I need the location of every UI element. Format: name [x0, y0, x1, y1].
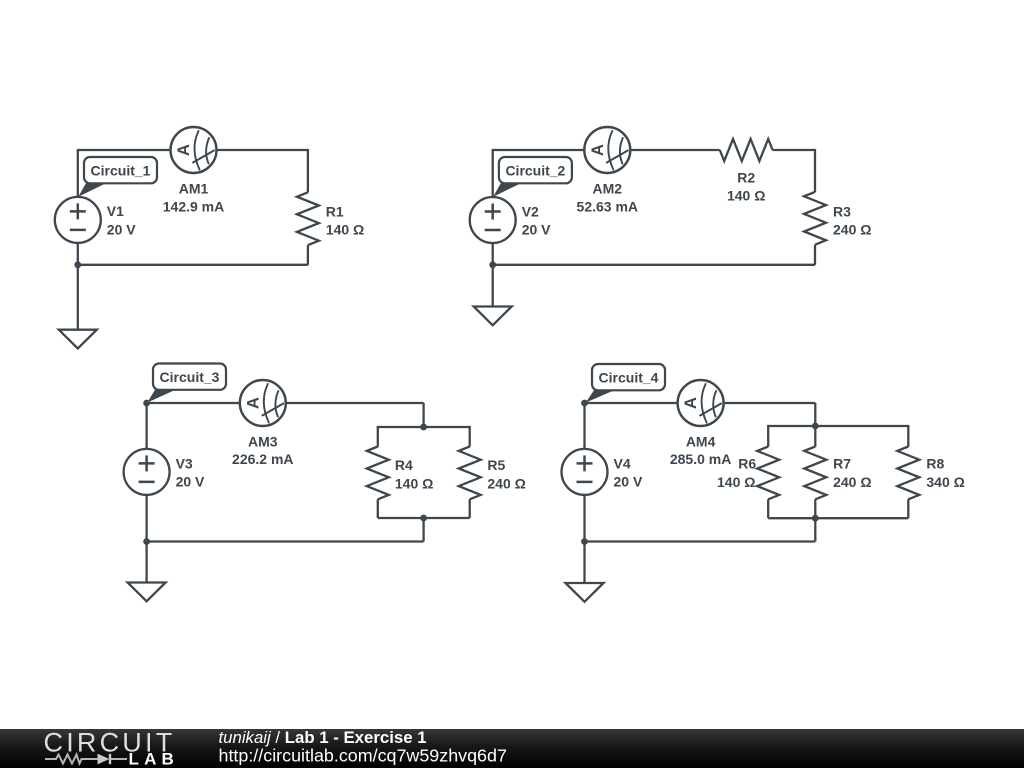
wire: circuit 4 top-left vertical to V4 top — [583, 403, 585, 449]
ground (circuit 4) — [566, 583, 604, 602]
junction dot: parallel top node (circuit 3) — [420, 424, 427, 431]
svg-text:http://circuitlab.com/cq7w59zh: http://circuitlab.com/cq7w59zhvq6d7 — [219, 745, 507, 765]
svg-text:A: A — [682, 397, 700, 409]
ground (circuit 3) — [128, 583, 166, 602]
resistor R2 — [720, 139, 773, 161]
svg-text:142.9 mA: 142.9 mA — [163, 198, 224, 214]
wire: circuit 3 top rail left segment — [147, 402, 241, 404]
wire: R6 upper lead — [767, 425, 769, 447]
resistor R5 — [459, 447, 481, 500]
logo diode symbol — [98, 754, 128, 765]
voltage source V4 — [562, 449, 608, 495]
wire: circuit 2 bottom rail — [493, 264, 815, 266]
label AM4 value — [670, 434, 731, 468]
label AM3 value — [232, 434, 293, 468]
resistor R4 — [367, 447, 389, 500]
label R7 value — [833, 455, 871, 490]
svg-text:R1: R1 — [326, 203, 344, 219]
label R1 value — [326, 203, 364, 237]
ammeter AM3 — [240, 380, 286, 426]
node flag Circuit_1 — [78, 157, 157, 197]
wire: circuit 3 top-left vertical to V3 top — [145, 403, 147, 449]
svg-text:140 Ω: 140 Ω — [326, 222, 364, 238]
svg-text:V1: V1 — [107, 203, 124, 219]
label R4 value — [395, 457, 433, 492]
svg-text:R3: R3 — [833, 203, 851, 219]
wire: R4 lower lead — [377, 499, 379, 518]
svg-text:140 Ω: 140 Ω — [717, 474, 755, 490]
ammeter AM1 — [171, 127, 217, 173]
svg-text:20 V: 20 V — [522, 221, 551, 237]
svg-text:R8: R8 — [926, 455, 944, 471]
wire: R8 upper lead — [907, 425, 909, 447]
svg-text:AM3: AM3 — [248, 434, 278, 450]
junction dot: circuit 2 bottom-left node — [489, 261, 496, 268]
svg-text:285.0 mA: 285.0 mA — [670, 451, 731, 467]
resistor R3 — [804, 192, 826, 245]
wire: circuit 2 right vertical lower lead — [814, 245, 816, 265]
svg-text:A: A — [589, 144, 607, 156]
label V3 value — [176, 455, 205, 489]
wire: circuit 1 right vertical upper lead — [307, 149, 309, 193]
ground (circuit 1) — [59, 330, 97, 349]
wire: circuit 2 ground stem — [492, 265, 494, 307]
wire: circuit 4 stem from parallel bottom to main bottom rail — [814, 518, 816, 541]
label V4 value — [614, 455, 643, 489]
svg-text:V3: V3 — [176, 455, 193, 471]
wire: R5 lower lead — [469, 499, 471, 518]
svg-text:V2: V2 — [522, 203, 539, 219]
svg-text:20 V: 20 V — [614, 474, 643, 490]
label R5 value — [487, 457, 525, 492]
node flag Circuit_2 — [493, 157, 572, 197]
svg-text:AM2: AM2 — [593, 181, 623, 197]
svg-text:226.2 mA: 226.2 mA — [232, 451, 293, 467]
wire: R8 lower lead — [907, 499, 909, 518]
label R6 value — [717, 455, 756, 490]
logo resistor squiggle — [45, 755, 98, 764]
junction dot: circuit 4 top-left node — [581, 400, 588, 407]
svg-text:Circuit_3: Circuit_3 — [160, 369, 220, 385]
junction dot: parallel top node (circuit 4) — [812, 423, 819, 430]
svg-text:V4: V4 — [614, 455, 631, 471]
wire: circuit 3 main bottom rail — [147, 540, 424, 542]
svg-text:AM4: AM4 — [686, 434, 716, 450]
wire: R4 upper lead — [377, 426, 379, 447]
label R2 value — [727, 169, 765, 203]
junction dot: parallel bottom node (circuit 3) — [420, 515, 427, 522]
wire: circuit 4 parallel top rail — [768, 425, 908, 427]
wire: circuit 2 top rail right segment — [773, 149, 815, 151]
svg-text:240 Ω: 240 Ω — [487, 476, 525, 492]
svg-text:340 Ω: 340 Ω — [926, 474, 964, 490]
svg-text:240 Ω: 240 Ω — [833, 474, 871, 490]
svg-text:Circuit_4: Circuit_4 — [599, 370, 659, 386]
wire: circuit 3 feed stem down to parallel top rail — [422, 403, 424, 427]
svg-text:52.63 mA: 52.63 mA — [577, 198, 638, 214]
wire: V4 bottom to bottom rail — [583, 494, 585, 541]
junction dot: circuit 3 bottom-left node — [143, 538, 150, 545]
wire: circuit 2 top-left vertical from corner to V2 top — [492, 150, 494, 198]
wire: V1 bottom to bottom rail — [77, 243, 79, 265]
wire: circuit 4 parallel bottom rail — [768, 517, 908, 519]
voltage source V3 — [124, 449, 170, 495]
junction dot: circuit 3 top-left node — [143, 400, 150, 407]
svg-text:AM1: AM1 — [179, 181, 209, 197]
label R8 value — [926, 455, 964, 490]
label R3 value — [833, 203, 871, 237]
svg-text:R4: R4 — [395, 457, 413, 473]
svg-text:LAB: LAB — [129, 750, 180, 768]
wire: circuit 3 stem from parallel bottom to main bottom rail — [422, 518, 424, 542]
resistor R7 — [804, 447, 826, 500]
wire: circuit 3 parallel bottom rail — [378, 517, 470, 519]
svg-text:R6: R6 — [738, 455, 756, 471]
wire: circuit 4 top rail left segment — [585, 402, 678, 404]
footer bar — [0, 729, 1024, 768]
wire: circuit 4 main bottom rail — [585, 540, 816, 542]
wire: R6 lower lead — [767, 499, 769, 518]
ammeter AM2 — [584, 127, 630, 173]
wire: circuit 3 parallel top rail — [378, 426, 470, 428]
wire: circuit 4 feed stem down to parallel top rail — [814, 403, 816, 426]
resistor R8 — [897, 447, 919, 500]
label V1 value — [107, 203, 136, 237]
resistor R1 — [297, 192, 319, 245]
svg-text:Circuit_2: Circuit_2 — [505, 163, 565, 179]
wire: circuit 4 top rail right segment — [723, 402, 815, 404]
svg-text:Circuit_1: Circuit_1 — [91, 163, 151, 179]
wire: circuit 2 top rail left segment — [492, 149, 585, 151]
svg-text:R2: R2 — [737, 169, 755, 185]
svg-text:20 V: 20 V — [176, 474, 205, 490]
wire: circuit 4 ground stem — [583, 542, 585, 584]
label AM2 value — [577, 181, 638, 215]
ground (circuit 2) — [474, 307, 512, 326]
wire: circuit 1 right vertical lower lead — [307, 245, 309, 265]
label V2 value — [522, 203, 551, 237]
voltage source V1 — [55, 197, 101, 243]
label AM1 value — [163, 181, 224, 215]
node flag Circuit_4 — [586, 364, 665, 403]
junction dot: parallel bottom node (circuit 4) — [812, 515, 819, 522]
svg-text:20 V: 20 V — [107, 221, 136, 237]
junction dot: circuit 1 bottom-left node — [74, 261, 81, 268]
svg-text:140 Ω: 140 Ω — [727, 187, 765, 203]
wire: circuit 1 top-left vertical from corner to V1 top — [77, 150, 79, 198]
svg-text:R5: R5 — [487, 457, 505, 473]
wire: circuit 3 ground stem — [145, 542, 147, 583]
wire: R7 lower lead — [814, 499, 816, 518]
node flag Circuit_3 — [147, 364, 226, 403]
svg-text:A: A — [244, 397, 262, 409]
wire: circuit 1 top rail left segment — [77, 149, 171, 151]
svg-text:140 Ω: 140 Ω — [395, 476, 433, 492]
resistor R6 — [757, 447, 779, 500]
wire: V3 bottom to bottom rail — [145, 494, 147, 541]
wire: circuit 1 ground stem — [77, 265, 79, 330]
wire: circuit 1 bottom rail — [78, 264, 308, 266]
wire: circuit 2 right vertical upper lead — [814, 149, 816, 192]
wire: R5 upper lead — [469, 426, 471, 447]
ammeter AM4 — [678, 380, 724, 426]
wire: circuit 3 top rail right segment — [286, 402, 424, 404]
wire: V2 bottom to bottom rail — [492, 243, 494, 265]
svg-text:240 Ω: 240 Ω — [833, 222, 871, 238]
svg-text:R7: R7 — [833, 455, 851, 471]
wire: circuit 1 top rail right segment — [216, 149, 308, 151]
svg-text:A: A — [175, 144, 193, 156]
junction dot: circuit 4 bottom-left node — [581, 538, 588, 545]
wire: R7 upper lead — [814, 425, 816, 447]
wire: circuit 2 top rail middle segment — [630, 149, 720, 151]
voltage source V2 — [470, 197, 516, 243]
